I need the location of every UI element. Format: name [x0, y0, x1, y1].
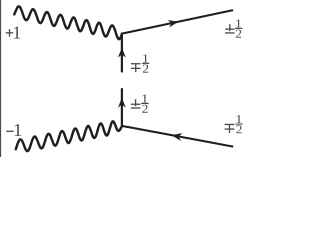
arrowhead outgoing electron top: [168, 20, 179, 27]
photon wavy line bottom (helicity -1): [16, 121, 122, 151]
label pm 1/2 (top right): [225, 19, 242, 37]
left page border: [0, 0, 2, 157]
label pm 1/2 (bottom middle): [131, 95, 149, 113]
label mp 1/2 (bottom right): [225, 115, 243, 133]
outgoing electron vertical line bottom: [121, 88, 123, 126]
arrowhead vertical top (up): [118, 48, 126, 58]
incoming electron line bottom: [122, 126, 233, 147]
label mp 1/2 (top middle): [131, 54, 149, 72]
arrowhead vertical bottom (up): [118, 98, 126, 108]
label +1: [6, 27, 21, 39]
arrowhead incoming electron bottom (toward vertex): [171, 133, 182, 141]
incoming electron vertical line top: [121, 33, 123, 73]
photon wavy line top (helicity +1): [14, 6, 122, 39]
label -1: [6, 124, 21, 136]
outgoing electron line top: [122, 10, 233, 33]
